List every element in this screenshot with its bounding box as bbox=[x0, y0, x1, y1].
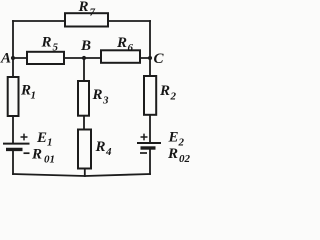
battery E1 minus sign bbox=[24, 152, 30, 154]
battery E1 plus sign bbox=[21, 134, 28, 141]
wire R2 to battery E2 bbox=[149, 114, 151, 143]
svg-text:3: 3 bbox=[102, 95, 109, 107]
svg-text:R: R bbox=[78, 0, 89, 15]
svg-text:R: R bbox=[31, 147, 42, 163]
node A junction dot bbox=[11, 56, 15, 60]
resistor R6 box bbox=[101, 50, 140, 63]
svg-text:R: R bbox=[116, 35, 127, 51]
battery E2 plus sign bbox=[141, 134, 148, 141]
node B junction dot bbox=[82, 56, 86, 60]
svg-text:7: 7 bbox=[90, 7, 96, 19]
svg-text:E: E bbox=[36, 130, 47, 146]
wire left vertical A down to battery E1 bbox=[12, 58, 14, 143]
svg-text:01: 01 bbox=[44, 154, 55, 166]
battery E2 short thick plate bbox=[141, 146, 156, 149]
wire E2 to bottom rail bbox=[149, 148, 151, 174]
wire top rail bbox=[13, 20, 150, 22]
svg-text:E: E bbox=[168, 130, 179, 146]
battery E1 long plate bbox=[3, 143, 30, 145]
resistor R5 box bbox=[27, 52, 64, 64]
svg-text:2: 2 bbox=[178, 137, 185, 149]
wire right vertical (top rail down through C to R2) bbox=[149, 21, 151, 76]
svg-text:5: 5 bbox=[53, 42, 59, 54]
wire middle rail A-B-C bbox=[13, 57, 150, 59]
resistor R4 box bbox=[78, 130, 91, 169]
svg-text:1: 1 bbox=[31, 90, 37, 102]
node C junction dot bbox=[148, 56, 152, 60]
wire top-left vertical (node A up to top rail) bbox=[12, 21, 14, 58]
svg-text:R: R bbox=[41, 35, 52, 51]
resistor R3 box bbox=[78, 81, 89, 116]
wire R4 to bottom rail bbox=[84, 168, 86, 176]
svg-text:02: 02 bbox=[179, 153, 191, 165]
svg-text:C: C bbox=[154, 51, 165, 67]
svg-text:B: B bbox=[80, 38, 91, 54]
battery E2 minus sign bbox=[140, 152, 147, 154]
svg-text:R: R bbox=[92, 87, 103, 103]
resistor R7 box bbox=[65, 13, 108, 26]
wire middle branch B down through R3 R4 bbox=[83, 58, 85, 130]
svg-text:6: 6 bbox=[128, 42, 134, 54]
svg-text:2: 2 bbox=[170, 91, 177, 103]
resistor R1 box bbox=[8, 77, 19, 116]
resistor R2 box bbox=[144, 76, 156, 115]
svg-text:R: R bbox=[20, 83, 31, 99]
svg-text:A: A bbox=[0, 51, 11, 67]
svg-text:1: 1 bbox=[47, 137, 53, 149]
svg-text:R: R bbox=[167, 146, 178, 162]
svg-text:R: R bbox=[159, 83, 170, 99]
svg-text:4: 4 bbox=[105, 146, 112, 158]
battery E1 short thick plate bbox=[6, 148, 23, 151]
svg-text:R: R bbox=[95, 139, 106, 155]
battery E2 long plate bbox=[137, 142, 161, 144]
wire E1 to bottom rail bbox=[12, 150, 14, 174]
wire bottom rail bbox=[13, 174, 150, 176]
